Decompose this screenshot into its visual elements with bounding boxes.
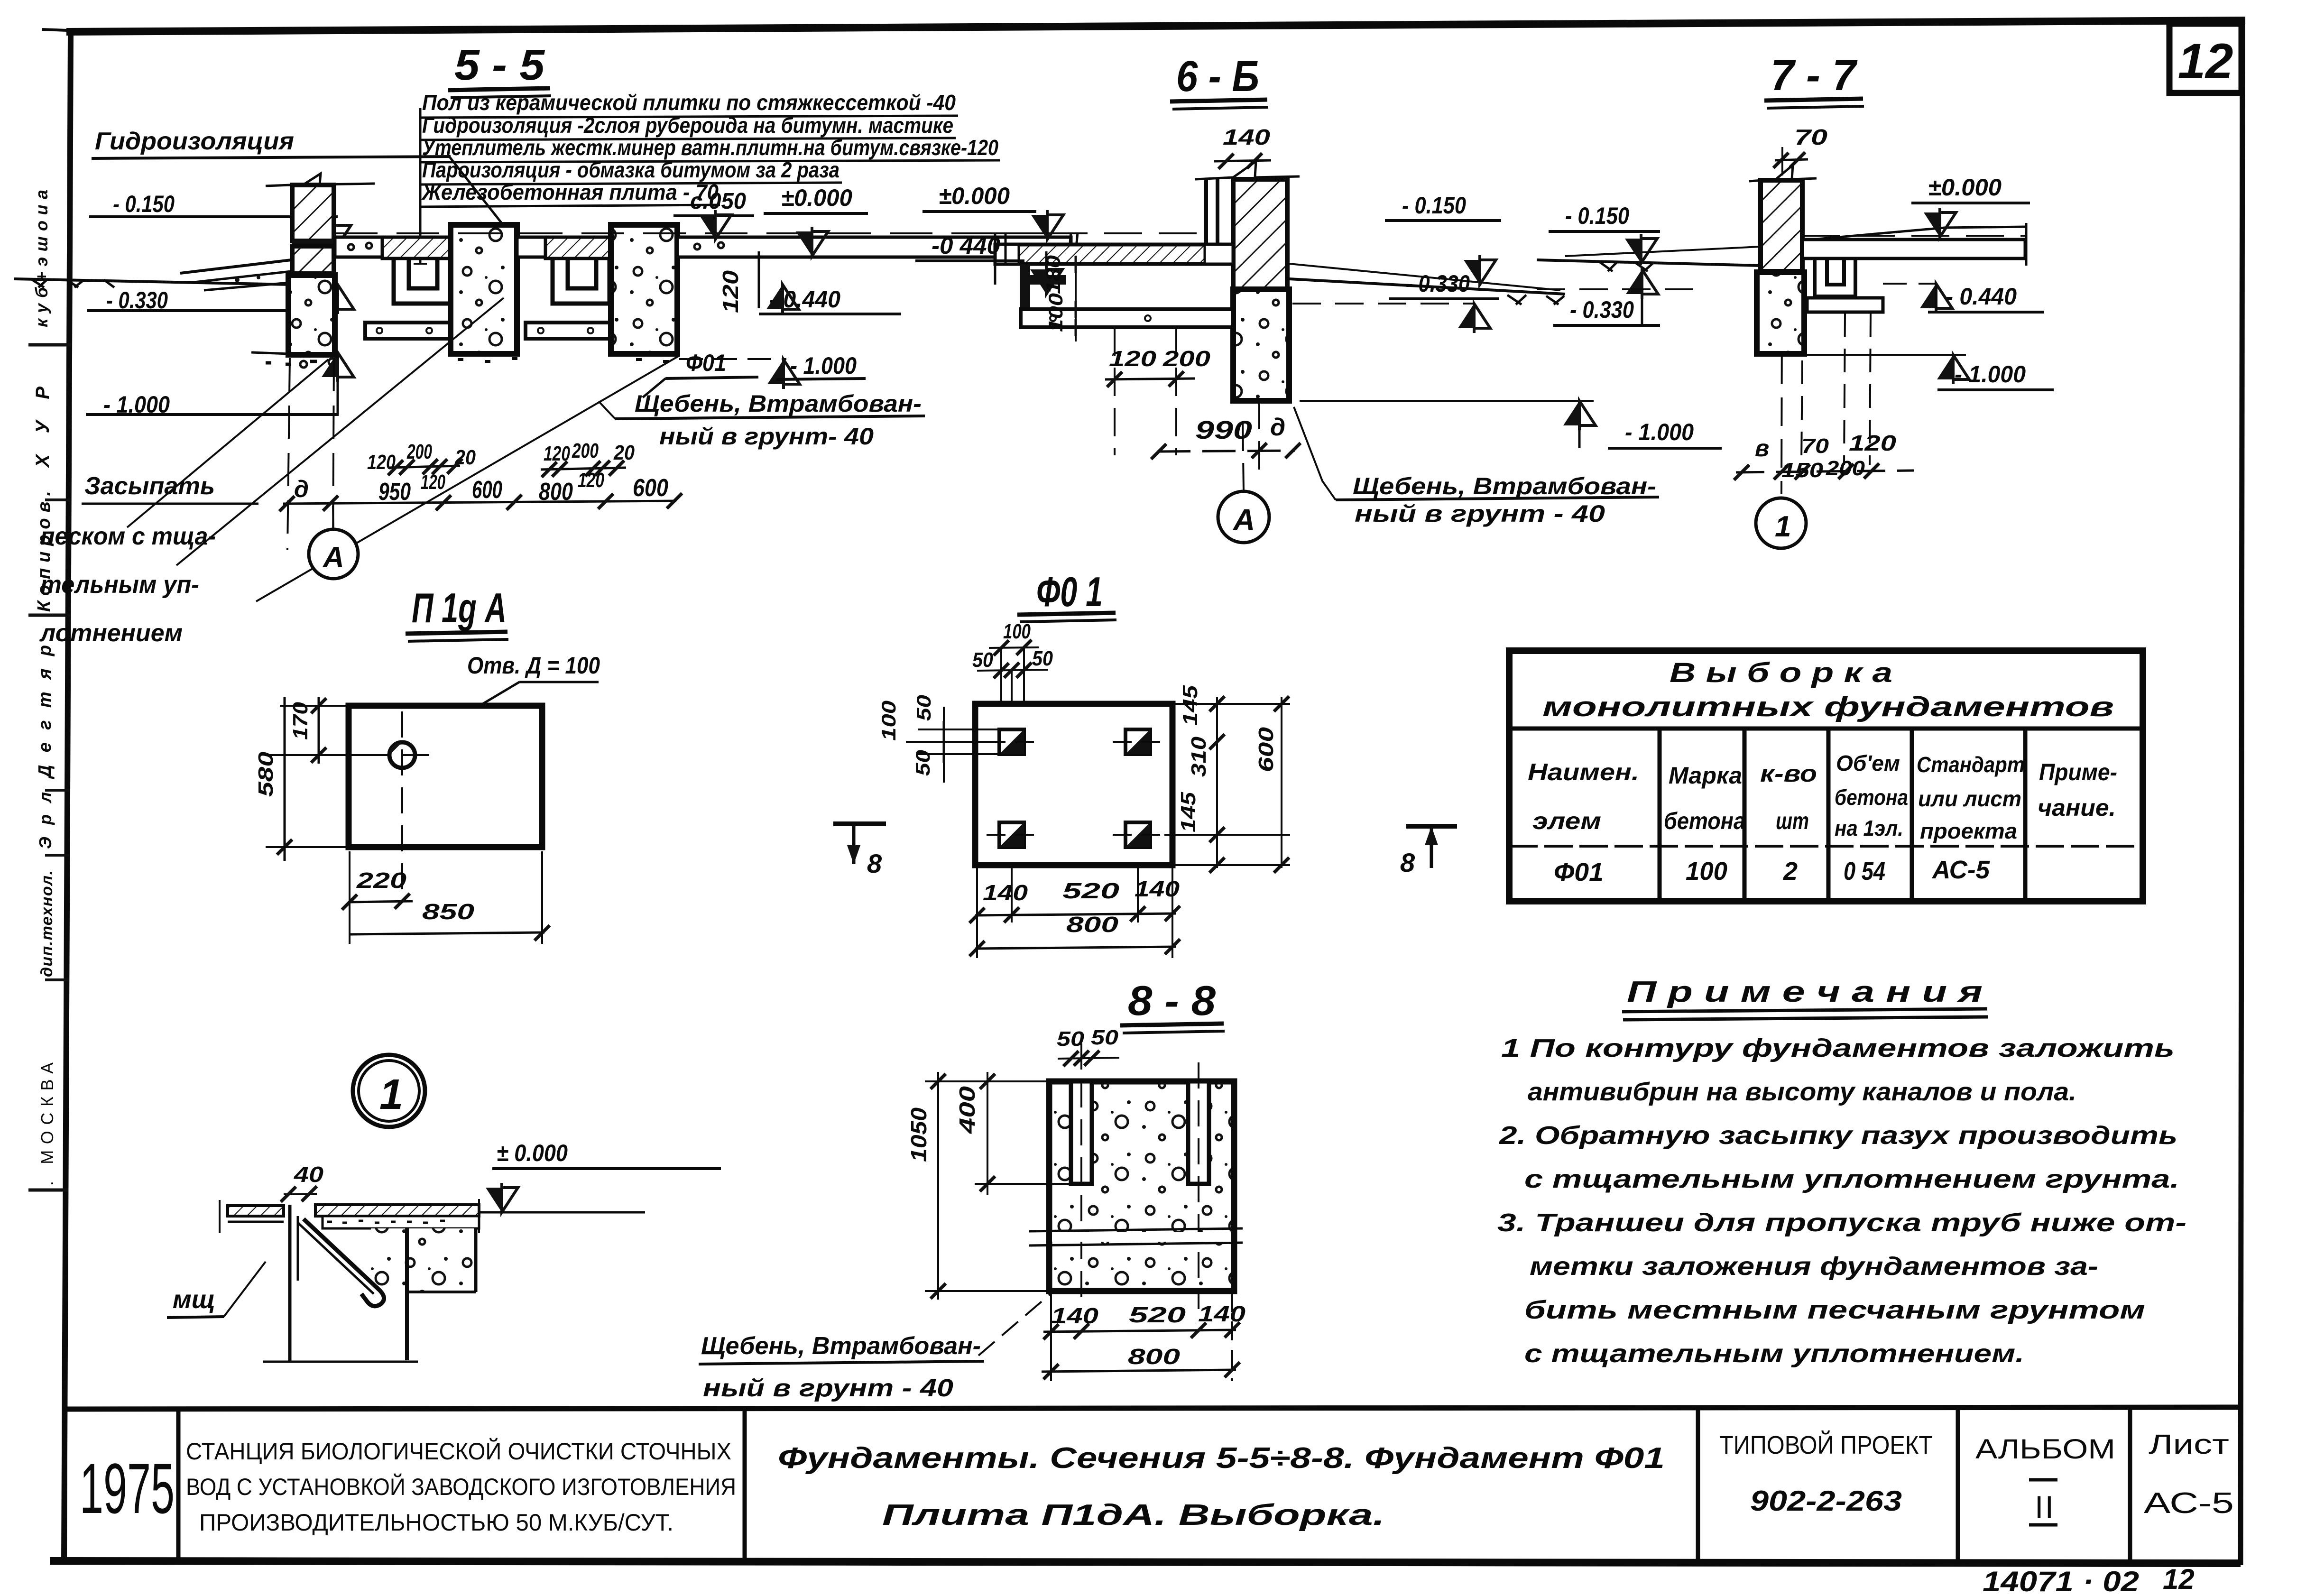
svg-text:1: 1	[1775, 510, 1791, 543]
rubble leader 6-6	[1294, 407, 1336, 500]
svg-text:8: 8	[867, 849, 882, 878]
svg-text:140: 140	[1223, 125, 1271, 149]
svg-text:950: 950	[378, 478, 411, 506]
svg-text:850: 850	[422, 899, 475, 924]
floor slab 6-6	[995, 244, 1233, 264]
svg-text:±0.000: ±0.000	[939, 183, 1010, 209]
svg-text:220: 220	[356, 868, 407, 893]
footing block 7-7	[1757, 272, 1804, 354]
level -1.000 6-6	[1300, 400, 1594, 402]
level -1.000 7-7	[1757, 354, 1966, 356]
trench dashed sides below footing	[287, 358, 290, 550]
svg-text:120: 120	[718, 270, 743, 313]
svg-text:8 - 8: 8 - 8	[1128, 977, 1216, 1024]
channel right of column 7-7	[1815, 258, 1855, 296]
wall band	[292, 240, 334, 246]
svg-text:Об'ем: Об'ем	[1836, 751, 1900, 775]
svg-text:- 0.150: - 0.150	[113, 191, 175, 217]
svg-text:200: 200	[1826, 457, 1865, 480]
svg-text:3. Траншеи для пропуска труб н: 3. Траншеи для пропуска труб ниже от-	[1497, 1209, 2186, 1237]
4 anchor holes	[999, 729, 1150, 847]
channel 2 base plate	[526, 323, 611, 339]
svg-text:ный в грунт- 40: ный в грунт- 40	[659, 423, 874, 450]
rubble leader	[599, 401, 615, 419]
column 7-7	[1761, 180, 1802, 271]
svg-text:АЛЬБОМ: АЛЬБОМ	[1975, 1434, 2115, 1465]
svg-text:к-во: к-во	[1760, 760, 1817, 787]
svg-text:800: 800	[1128, 1344, 1181, 1369]
slots	[1071, 1081, 1092, 1184]
svg-text:Утеплитель жестк.минер ватн.пл: Утеплитель жестк.минер ватн.плитн.на бит…	[422, 135, 998, 160]
channel 1 U-trough	[394, 258, 451, 304]
svg-text:песком с тща-: песком с тща-	[40, 523, 216, 550]
screed hatch over channel 2	[545, 237, 612, 258]
svg-text:в: в	[1755, 435, 1769, 461]
svg-text:- 1.000: - 1.000	[790, 352, 857, 379]
channel 1 base plate	[365, 323, 451, 339]
svg-text:СТАНЦИЯ БИОЛОГИЧЕСКОЙ ОЧИСТКИ: СТАНЦИЯ БИОЛОГИЧЕСКОЙ ОЧИСТКИ СТОЧНЫХ	[186, 1438, 731, 1465]
wall break line top	[266, 174, 375, 186]
svg-text:П 1g А: П 1g А	[412, 584, 507, 631]
wall footing concrete block	[288, 275, 335, 355]
svg-text:Лист: Лист	[2149, 1429, 2229, 1460]
ground line right of column 6-6	[1289, 279, 1565, 294]
svg-text:±0.000: ±0.000	[781, 185, 852, 211]
left border	[64, 32, 71, 1563]
svg-text:В ы б о р к а: В ы б о р к а	[1670, 657, 1892, 688]
svg-text:Эрл: Эрл	[36, 792, 55, 849]
svg-text:шт: шт	[1776, 808, 1809, 834]
svg-text:д: д	[1270, 414, 1285, 441]
svg-text:АС-5: АС-5	[1931, 856, 1990, 884]
svg-text:100: 100	[877, 701, 900, 741]
svg-text:50: 50	[1057, 1027, 1085, 1051]
axis circle A 6-6	[1218, 491, 1269, 543]
svg-text:400: 400	[955, 1086, 979, 1134]
svg-text:40: 40	[294, 1162, 324, 1187]
plan rectangle	[975, 704, 1172, 865]
svg-text:с тщательным уплотнением.: с тщательным уплотнением.	[1524, 1339, 2024, 1368]
channel 2 U-trough	[553, 258, 609, 304]
svg-text:А: А	[322, 541, 344, 574]
svg-text:Приме-: Приме-	[2039, 759, 2117, 785]
svg-text:Наимен.: Наимен.	[1528, 759, 1639, 785]
level -1.000 right	[679, 358, 786, 360]
svg-text:2. Обратную засыпку пазух прои: 2. Обратную засыпку пазух производить	[1499, 1121, 2177, 1150]
svg-text:0 54: 0 54	[1844, 857, 1885, 886]
svg-text:ный в грунт - 40: ный в грунт - 40	[703, 1375, 953, 1402]
svg-text:120: 120	[1109, 346, 1157, 371]
svg-text:100: 100	[1044, 293, 1067, 332]
rubble leader 8-8	[978, 1291, 1054, 1356]
column break top 7-7	[1749, 165, 1817, 181]
svg-text:Засыпать: Засыпать	[84, 472, 215, 500]
slab right of block2	[677, 237, 1071, 257]
svg-text:бетона: бетона	[1835, 785, 1908, 810]
pipe double line	[1204, 179, 1208, 247]
svg-text:- 0.150: - 0.150	[1565, 203, 1629, 229]
svg-text:1975: 1975	[80, 1448, 175, 1528]
svg-text:520: 520	[1129, 1302, 1186, 1327]
svg-text:- 0.440: - 0.440	[1946, 283, 2017, 310]
svg-text:А: А	[1232, 503, 1255, 537]
svg-text:д: д	[294, 476, 309, 502]
svg-text:Железобетонная плита - 70: Железобетонная плита - 70	[421, 180, 719, 204]
svg-text:7 - 7: 7 - 7	[1771, 51, 1858, 100]
svg-text:ВОД С УСТАНОВКОЙ ЗАВОДСКОГО ИЗ: ВОД С УСТАНОВКОЙ ЗАВОДСКОГО ИЗГОТОВЛЕНИЯ	[186, 1473, 736, 1500]
table subheader underline	[1509, 845, 2143, 848]
top dashed finish line	[335, 232, 1077, 234]
svg-text:Ф01: Ф01	[686, 350, 726, 376]
top border	[66, 20, 2245, 32]
svg-text:метки заложения фундаментов за: метки заложения фундаментов за-	[1530, 1252, 2098, 1281]
svg-text:чание.: чание.	[2038, 794, 2116, 821]
svg-text:Гидроизоляция: Гидроизоляция	[95, 128, 294, 155]
node concrete body	[371, 1228, 476, 1292]
svg-text:мщ: мщ	[173, 1285, 215, 1314]
svg-text:Стандарт: Стандарт	[1917, 752, 2025, 777]
svg-text:180: 180	[1042, 255, 1064, 294]
anchor hook	[304, 1219, 384, 1306]
svg-text:Щебень, Втрамбован-: Щебень, Втрамбован-	[701, 1332, 981, 1360]
node floor left strip	[228, 1206, 284, 1216]
svg-text:- 0.330: - 0.330	[1570, 296, 1634, 323]
ground hatch marks 7-7	[1599, 262, 1653, 271]
table header underline	[1509, 727, 2143, 731]
svg-text:145: 145	[1177, 792, 1200, 832]
svg-text:580: 580	[254, 751, 277, 797]
svg-text:Фундаменты. Сечения 5-5÷8-8. Ф: Фундаменты. Сечения 5-5÷8-8. Фундамент Ф…	[778, 1442, 1665, 1475]
svg-text:± 0.000: ± 0.000	[497, 1140, 568, 1166]
svg-text:-0 440: -0 440	[932, 232, 1000, 259]
center dash axis 7-7	[1781, 147, 1782, 494]
main dim 6-6	[1157, 451, 1295, 452]
svg-text:70: 70	[1794, 125, 1828, 149]
column hatched 6-6	[1233, 179, 1287, 289]
section mark 8 left	[833, 821, 886, 826]
svg-text:50: 50	[1032, 647, 1053, 670]
axis circle A	[309, 529, 358, 579]
slot axes	[1080, 1043, 1082, 1309]
svg-text:2: 2	[1783, 857, 1798, 886]
foundation block F01 no.2	[611, 225, 677, 354]
slab left end verticals	[994, 232, 996, 285]
svg-text:бить местным песчаным грунт: бить местным песчаным грунтом	[1524, 1296, 2145, 1324]
verticals from top dims to plan	[1000, 648, 1002, 733]
svg-text:Отв. Д = 100: Отв. Д = 100	[467, 652, 600, 679]
svg-text:800: 800	[1066, 912, 1119, 937]
hole axis dashes	[987, 741, 1039, 743]
svg-text:куб+эшоиа: куб+эшоиа	[32, 190, 51, 327]
svg-text:310: 310	[1187, 736, 1210, 777]
svg-text:120: 120	[1849, 431, 1897, 455]
svg-text:170: 170	[289, 701, 312, 740]
slab right end break	[1068, 232, 1071, 264]
svg-text:200: 200	[406, 440, 432, 463]
wall break top	[1195, 161, 1300, 179]
node joint verticals	[288, 1205, 292, 1362]
title block outline	[65, 1407, 2241, 1409]
column footing block 6-6	[1233, 289, 1289, 401]
hole circle	[389, 742, 415, 768]
foundation block F01 no.1	[451, 225, 517, 354]
left margin separator ticks	[28, 343, 71, 347]
svg-text:12: 12	[2178, 34, 2233, 89]
body outline 8-8	[1049, 1081, 1234, 1291]
svg-text:1 По контуру фундаментов залож: 1 По контуру фундаментов заложить	[1501, 1034, 2175, 1062]
svg-text:1050: 1050	[906, 1107, 931, 1162]
svg-text:50: 50	[1091, 1026, 1119, 1049]
svg-text:600: 600	[472, 476, 502, 504]
svg-text:или лист: или лист	[1918, 786, 2021, 811]
dashed axes under dims 6-6	[1258, 401, 1260, 474]
svg-text:600: 600	[633, 474, 668, 502]
svg-text:проекта: проекта	[1920, 819, 2017, 843]
svg-text:Пол из керамической плитки по: Пол из керамической плитки по стяжкессет…	[422, 90, 956, 115]
stipple under blocks	[458, 359, 696, 361]
svg-text:1: 1	[379, 1071, 403, 1118]
hydro leader	[450, 157, 515, 240]
main dimension line 5-5	[283, 501, 676, 504]
svg-text:ТИПОВОЙ ПРОЕКТ: ТИПОВОЙ ПРОЕКТ	[1719, 1430, 1933, 1459]
svg-text:200: 200	[1162, 346, 1211, 371]
screed hatch over channel 1	[382, 237, 453, 258]
stipple under footing	[266, 361, 317, 364]
svg-text:120: 120	[421, 470, 445, 494]
svg-text:902-2-263: 902-2-263	[1750, 1485, 1902, 1517]
sloped blind area wedge	[180, 260, 332, 273]
node circle 1	[353, 1055, 425, 1127]
svg-text:145: 145	[1179, 685, 1202, 726]
svg-text:Гидроизоляция -2слоя рубероида: Гидроизоляция -2слоя рубероида на битумн…	[422, 113, 953, 138]
ground hatch 6-6 right	[1507, 295, 1564, 304]
svg-text:8: 8	[1400, 848, 1415, 877]
leader F01 to block2	[643, 378, 665, 397]
plate rectangle	[349, 706, 542, 847]
svg-text:- 1.000: - 1.000	[1955, 361, 2026, 387]
dashed dim verticals 7-7	[1801, 360, 1802, 465]
svg-text:Ф0 1: Ф0 1	[1036, 568, 1103, 615]
svg-text:Щебень, Втрамбован-: Щебень, Втрамбован-	[1353, 473, 1656, 499]
node floor right strip	[315, 1205, 479, 1216]
svg-text:14071 · 02: 14071 · 02	[1983, 1566, 2139, 1596]
node circle 1 of 7-7	[1756, 498, 1806, 548]
brick wall upper	[292, 185, 334, 241]
svg-text:Ф01: Ф01	[1554, 858, 1604, 886]
svg-text:50: 50	[913, 695, 935, 721]
svg-text:12: 12	[2163, 1563, 2195, 1595]
svg-text:±0.000: ±0.000	[1928, 174, 2002, 201]
right border	[2241, 20, 2242, 1565]
sheet number box 12	[2169, 24, 2242, 93]
svg-text:50: 50	[972, 648, 993, 672]
svg-text:дип.технол.: дип.технол.	[38, 870, 56, 977]
svg-text:ХУР: ХУР	[32, 387, 53, 468]
table column lines	[1658, 729, 1662, 901]
section mark 8 right	[1406, 824, 1457, 829]
break lines through body	[1029, 1228, 1243, 1231]
svg-text:антивибрин на высоту каналов и: антивибрин на высоту каналов и пола.	[1528, 1078, 2076, 1106]
title block verticals	[176, 1409, 181, 1561]
svg-text:бетона: бетона	[1664, 808, 1745, 834]
svg-text:лотнением: лотнением	[39, 619, 183, 647]
svg-text:Марка: Марка	[1669, 762, 1742, 789]
floor slab right 7-7	[1802, 240, 2025, 258]
floor slab segment wall..channel1	[335, 237, 382, 257]
long construction leaders	[127, 360, 328, 527]
svg-text:монолитных фундаментов: монолитных фундаментов	[1542, 692, 2114, 722]
svg-text:ный в грунт - 40: ный в грунт - 40	[1355, 500, 1605, 527]
svg-text:140: 140	[983, 880, 1028, 905]
svg-text:150: 150	[1781, 459, 1824, 482]
svg-text:200: 200	[572, 439, 599, 462]
slab between block1 and channel2	[517, 237, 545, 257]
hole axes	[401, 711, 403, 892]
svg-text:- 1.000: - 1.000	[1625, 419, 1694, 445]
svg-text:520: 520	[1062, 878, 1120, 903]
annotation leader vertical into slab	[419, 108, 422, 264]
svg-text:с тщательным уплотнением грунт: с тщательным уплотнением грунта.	[1524, 1165, 2179, 1193]
ground hatch marks	[31, 279, 114, 287]
svg-text:70: 70	[1801, 434, 1829, 458]
svg-text:ПРОИЗВОДИТЕЛЬНОСТЬЮ 50 М.КУБ/С: ПРОИЗВОДИТЕЛЬНОСТЬЮ 50 М.КУБ/СУТ.	[199, 1509, 673, 1536]
brick wall lower	[292, 246, 334, 274]
svg-text:элем: элем	[1532, 808, 1601, 834]
svg-text:600: 600	[1255, 727, 1278, 772]
svg-text:6 - Б: 6 - Б	[1176, 52, 1259, 101]
ground line left of wall	[14, 279, 291, 285]
svg-text:Щебень, Втрамбован-: Щебень, Втрамбован-	[635, 390, 922, 417]
top border left thin extension	[42, 29, 67, 30]
svg-text:- 0.330: - 0.330	[1406, 270, 1470, 297]
svg-text:тельным уп-: тельным уп-	[40, 571, 199, 599]
svg-text:на 1эл.: на 1эл.	[1835, 816, 1903, 840]
svg-text:c.050: c.050	[690, 189, 746, 214]
ground line left 7-7	[1537, 260, 1761, 266]
lower base plate 6-6	[1021, 309, 1233, 327]
svg-text:5 - 5: 5 - 5	[454, 41, 545, 89]
table outer box	[1509, 651, 2143, 901]
svg-text:120: 120	[578, 469, 604, 492]
svg-text:Плита П1дА. Выборка.: Плита П1дА. Выборка.	[882, 1499, 1385, 1531]
svg-text:100: 100	[1686, 857, 1727, 886]
svg-text:АС-5: АС-5	[2144, 1487, 2234, 1520]
angle bracket	[1020, 264, 1066, 308]
svg-text:- 0.150: - 0.150	[1402, 192, 1466, 219]
svg-text:800: 800	[539, 478, 573, 506]
svg-text:П р и м е ч а н и я: П р и м е ч а н и я	[1627, 976, 1983, 1008]
svg-text:Пароизоляция - обмазка битумом: Пароизоляция - обмазка битумом за 2 раза	[422, 157, 839, 182]
